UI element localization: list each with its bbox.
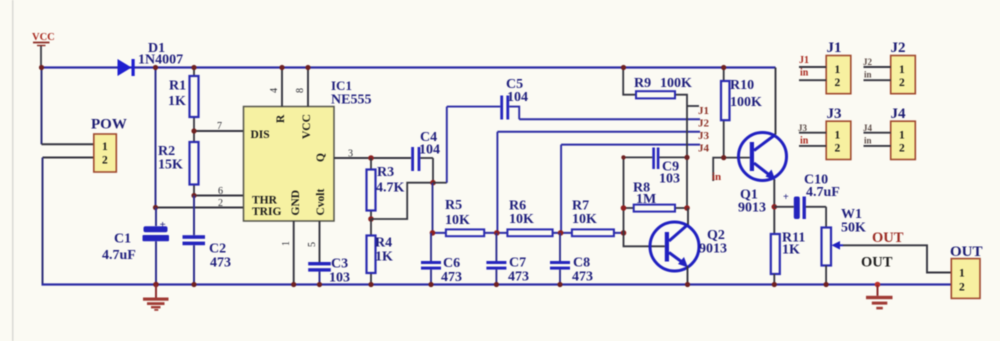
node junction C9 left vertical at row	[621, 155, 625, 159]
resistor R7	[572, 199, 614, 237]
svg-text:1: 1	[102, 141, 108, 153]
diode D1	[118, 41, 184, 76]
svg-text:GND: GND	[290, 190, 302, 216]
svg-text:C8: C8	[573, 256, 590, 271]
wire R3 bottom step to C4 node	[371, 183, 433, 219]
svg-text:2: 2	[218, 198, 223, 209]
wire J1 stub	[687, 105, 699, 107]
svg-text:1K: 1K	[168, 94, 186, 109]
wire C9/R8 left vertical down to Q2 base	[624, 157, 665, 246]
wire D1 node vertical down to TRIG	[155, 68, 157, 208]
svg-text:R3: R3	[377, 165, 394, 180]
wire POW pin2	[43, 157, 94, 159]
svg-text:103: 103	[659, 172, 680, 187]
connector J1	[799, 40, 851, 94]
op-amp/timer IC U1 NE555 body	[244, 78, 372, 221]
svg-text:J4: J4	[891, 106, 907, 122]
resistor R3	[367, 158, 405, 219]
svg-text:1: 1	[835, 130, 841, 142]
svg-text:J1: J1	[799, 55, 809, 66]
svg-text:C2: C2	[209, 242, 226, 257]
resistor R8	[621, 181, 690, 212]
svg-text:2: 2	[899, 143, 905, 155]
svg-text:in: in	[712, 171, 721, 183]
svg-text:POW: POW	[91, 117, 127, 133]
svg-text:473: 473	[572, 270, 593, 285]
svg-text:1: 1	[959, 268, 965, 280]
svg-text:OUT: OUT	[861, 255, 893, 271]
resistor R10	[721, 65, 762, 158]
svg-text:104: 104	[507, 90, 528, 105]
wire left vertical from VCC down	[41, 68, 43, 145]
wire J3 vertical to R5/R6 junction	[496, 132, 498, 233]
wire node down to R5 row	[432, 183, 434, 233]
svg-text:C1: C1	[114, 232, 131, 247]
connector POW	[91, 117, 127, 173]
svg-text:J1: J1	[827, 40, 842, 56]
ground symbol right	[866, 282, 893, 310]
svg-text:2: 2	[835, 143, 841, 155]
wire Q1 collector vertical	[775, 68, 777, 135]
node junction at D1 cathode	[153, 65, 158, 70]
svg-text:J2: J2	[891, 40, 906, 56]
capacitor C1	[102, 208, 169, 285]
svg-text:10K: 10K	[572, 212, 597, 227]
svg-text:Q: Q	[315, 153, 327, 162]
svg-text:7: 7	[217, 121, 222, 132]
svg-text:2: 2	[959, 282, 965, 294]
svg-text:R5: R5	[445, 198, 462, 213]
wire bottom ground rail	[42, 283, 952, 285]
svg-text:VCC: VCC	[301, 114, 313, 139]
svg-text:VCC: VCC	[32, 32, 55, 43]
svg-text:15K: 15K	[158, 158, 183, 173]
svg-text:OUT: OUT	[872, 230, 904, 246]
svg-text:R4: R4	[375, 236, 392, 251]
wire node right to C5 vertical	[433, 182, 447, 184]
svg-text:100K: 100K	[660, 76, 692, 91]
svg-text:C7: C7	[509, 256, 526, 271]
svg-text:1: 1	[899, 64, 905, 76]
node junction R7 right	[621, 230, 627, 236]
wire C5 left vertical	[446, 107, 448, 183]
capacitor C3	[308, 257, 350, 288]
svg-text:J4: J4	[698, 143, 710, 155]
resistor R4	[367, 219, 394, 287]
svg-text:473: 473	[210, 256, 231, 271]
capacitor C8	[550, 233, 593, 287]
wire C5 right to J2 wire	[509, 107, 519, 120]
svg-text:3: 3	[348, 149, 353, 160]
svg-text:J3: J3	[827, 106, 842, 122]
svg-text:473: 473	[508, 270, 529, 285]
wire Q1 base with in stub	[713, 158, 750, 181]
node junction R3 top	[368, 155, 374, 161]
connector J3	[798, 106, 851, 160]
svg-text:OUT: OUT	[950, 244, 983, 260]
transistor Q1	[738, 133, 787, 216]
wire Q2 collector vertical	[687, 208, 689, 225]
node junction C4/C5/R3	[430, 180, 436, 186]
wire IC pin5 Cvolt	[319, 221, 321, 262]
svg-text:10K: 10K	[509, 212, 534, 227]
svg-text:IC1: IC1	[331, 78, 352, 93]
svg-text:5: 5	[307, 242, 318, 247]
capacitor C4	[411, 130, 440, 171]
svg-text:1M: 1M	[636, 192, 656, 207]
wire top VCC rail	[41, 66, 776, 68]
node junction R6/R7	[558, 230, 564, 236]
svg-text:1K: 1K	[375, 250, 393, 265]
svg-text:1: 1	[899, 130, 905, 142]
svg-text:R10: R10	[730, 78, 754, 93]
ground symbol left	[143, 282, 169, 311]
node junction VCC drop	[39, 65, 44, 70]
svg-text:in: in	[800, 136, 809, 147]
svg-text:8: 8	[295, 88, 306, 93]
wire Q1 emitter vertical	[773, 180, 775, 235]
svg-text:1: 1	[281, 241, 292, 246]
wire TRIG pin2	[156, 207, 244, 209]
svg-text:473: 473	[441, 270, 462, 285]
svg-text:NE555: NE555	[331, 93, 371, 108]
wire J4 vertical to R6/R7 junction	[560, 145, 562, 233]
svg-text:TRIG: TRIG	[252, 206, 281, 218]
svg-text:1N4007: 1N4007	[138, 53, 183, 68]
svg-text:J4: J4	[863, 123, 873, 133]
node VCC	[32, 32, 55, 68]
svg-text:9013: 9013	[699, 242, 727, 257]
connector J2	[863, 40, 915, 94]
wire net J4	[561, 144, 700, 146]
svg-text:2: 2	[899, 77, 905, 89]
node junction R3 bottom	[368, 216, 374, 222]
connector J4	[863, 106, 915, 160]
capacitor C10	[774, 173, 840, 220]
svg-text:in: in	[864, 70, 872, 80]
resistor R9	[621, 65, 692, 208]
svg-text:in: in	[864, 136, 872, 146]
svg-text:+: +	[783, 192, 789, 203]
svg-text:J2: J2	[698, 118, 710, 130]
wire left vertical to ground rail	[42, 158, 44, 285]
connector OUT	[950, 244, 983, 298]
capacitor C9	[624, 148, 690, 187]
wire Q output pin3	[334, 157, 411, 159]
svg-text:2: 2	[102, 155, 108, 167]
svg-text:10K: 10K	[445, 213, 470, 228]
svg-text:50K: 50K	[841, 221, 866, 236]
svg-text:103: 103	[329, 271, 350, 286]
svg-text:R: R	[275, 114, 287, 123]
wire R5 R6 R7 row	[433, 232, 624, 234]
svg-text:1: 1	[835, 64, 841, 76]
wire net J3	[497, 131, 700, 133]
capacitor C5	[500, 77, 528, 120]
capacitor C6	[421, 233, 462, 287]
wire Q2 emitter vertical	[687, 266, 689, 285]
svg-text:in: in	[800, 68, 809, 79]
svg-text:1K: 1K	[782, 243, 800, 258]
svg-text:J2: J2	[863, 57, 873, 67]
node junction R5 left	[430, 230, 436, 236]
wire W1 wiper to OUT pin1	[843, 245, 951, 272]
transistor Q2	[650, 222, 727, 271]
svg-text:R1: R1	[169, 79, 186, 94]
left page border line	[12, 0, 14, 341]
node junction R5/R6	[494, 230, 500, 236]
svg-text:4.7uF: 4.7uF	[102, 248, 136, 263]
svg-text:9013: 9013	[738, 201, 766, 216]
svg-text:4.7K: 4.7K	[376, 181, 405, 196]
node junction C2 on rail	[191, 282, 196, 287]
svg-text:4.7uF: 4.7uF	[806, 185, 840, 200]
svg-text:THR: THR	[252, 195, 278, 207]
resistor R5	[445, 198, 484, 236]
svg-text:4: 4	[269, 88, 280, 93]
resistor R6	[507, 199, 552, 237]
wire DIS pin7	[194, 130, 244, 132]
svg-text:C3: C3	[331, 257, 348, 272]
svg-text:104: 104	[419, 143, 440, 158]
resistor R2	[158, 131, 199, 196]
wire net J2	[519, 118, 700, 120]
svg-text:J1: J1	[698, 105, 709, 117]
wire THR pin6	[194, 195, 244, 197]
svg-text:6: 6	[218, 186, 223, 197]
node junction C10 tap	[772, 204, 778, 210]
svg-text:2: 2	[835, 77, 841, 89]
svg-text:DIS: DIS	[251, 129, 270, 141]
svg-text:R9: R9	[634, 76, 651, 91]
resistor R1	[168, 65, 199, 131]
svg-text:C6: C6	[443, 256, 460, 271]
svg-text:100K: 100K	[730, 95, 762, 110]
svg-text:Cvolt: Cvolt	[315, 189, 327, 216]
potentiometer W1	[822, 207, 867, 287]
wire IC pin8	[307, 68, 309, 107]
svg-text:J3: J3	[698, 130, 710, 142]
capacitor C7	[486, 233, 529, 287]
wire C4 right down to node	[432, 158, 434, 183]
wire IC pin1 GND	[293, 221, 295, 285]
resistor R11	[771, 231, 806, 288]
capacitor C2	[183, 196, 232, 285]
svg-text:J3: J3	[798, 123, 808, 133]
wire POW pin1	[42, 143, 94, 145]
wire IC pin4	[281, 68, 283, 107]
wire C5 left lead	[447, 106, 501, 108]
